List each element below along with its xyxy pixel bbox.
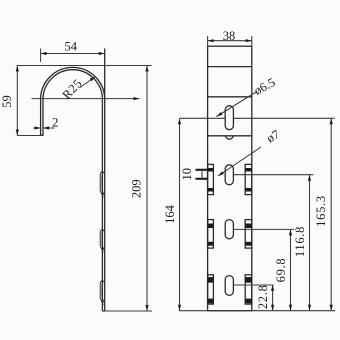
R25 leader: [80, 77, 96, 88]
svg-text:10: 10: [180, 168, 194, 181]
dim 2 right segment: [43, 127, 55, 129]
dim 10 connector: [201, 170, 203, 179]
ext line y174.7: [233, 174, 313, 176]
svg-text:22.8: 22.8: [256, 284, 270, 309]
dimple below bend line: [225, 136, 234, 140]
bend line y67.2: [208, 66, 252, 68]
hook outer arc: [41, 67, 105, 99]
hook bottom end: [102, 310, 104, 312]
tab G3 right: [245, 275, 252, 304]
dim 38 line: [208, 40, 252, 42]
dim 209 line: [146, 66, 148, 312]
bend line y97.7: [208, 96, 252, 98]
plate outline: [208, 46, 252, 311]
tab G1 right: [245, 164, 252, 194]
ext line y229.4: [233, 228, 294, 230]
side tab 1: [100, 171, 103, 198]
S1 slot ø6.5: [225, 106, 233, 130]
dim 116.8 line: [309, 175, 311, 311]
dim 22.8 line: [272, 285, 274, 311]
dim 38 ext ticks: [207, 36, 209, 46]
dim 69.8 line: [290, 229, 292, 310]
tab G2 right: [245, 220, 252, 249]
tab G1 left: [208, 164, 214, 194]
svg-text:165.3: 165.3: [314, 195, 328, 227]
ext line y65.5 (59 top / 209 top): [17, 65, 152, 67]
side tab 2: [100, 229, 103, 253]
tab G3 left: [208, 275, 214, 304]
svg-text:59: 59: [0, 95, 14, 108]
leader ø6.5: [217, 92, 258, 117]
dim 164 line: [179, 118, 181, 310]
svg-text:116.8: 116.8: [293, 226, 307, 257]
S4 slot: [225, 276, 233, 296]
svg-text:69.8: 69.8: [274, 258, 288, 283]
tab G2 left: [208, 220, 214, 249]
dim 165.3 line: [330, 118, 332, 310]
S3 slot: [225, 220, 233, 239]
leader ø7: [218, 147, 261, 176]
svg-text:38: 38: [223, 29, 236, 43]
dim 10 lower bar: [196, 178, 208, 180]
svg-text:54: 54: [65, 39, 78, 53]
S2 slot ø7: [225, 165, 233, 185]
side tab 3: [100, 280, 103, 305]
dim 2 left segment: [33, 127, 40, 129]
ext line y118.3 (164/165.3 top), broken by slot: [180, 117, 225, 119]
hook right leg outer edge / 54 extension: [104, 49, 106, 312]
ext line y135.5 (hook tip): [17, 135, 44, 137]
hook left leg: [41, 99, 43, 135]
bend line y135.8: [208, 135, 252, 137]
dim 54 line: [41, 53, 105, 55]
ext line y98.6 (arc centre), arrow at right end: [32, 98, 140, 100]
svg-text:2: 2: [52, 116, 58, 130]
dim 54 extension left tick: [40, 49, 42, 63]
svg-text:164: 164: [163, 204, 177, 224]
svg-text:209: 209: [130, 179, 144, 198]
ext line y285.4: [233, 284, 273, 286]
ext line y311 bottom left view: [103, 310, 153, 312]
hook right leg inner edge: [101, 99, 103, 311]
hook inner arc: [43, 70, 102, 100]
dim 10 upper bar: [196, 169, 208, 171]
dim 59 line: [16, 66, 18, 136]
baseline ext y310.7: [179, 310, 335, 312]
